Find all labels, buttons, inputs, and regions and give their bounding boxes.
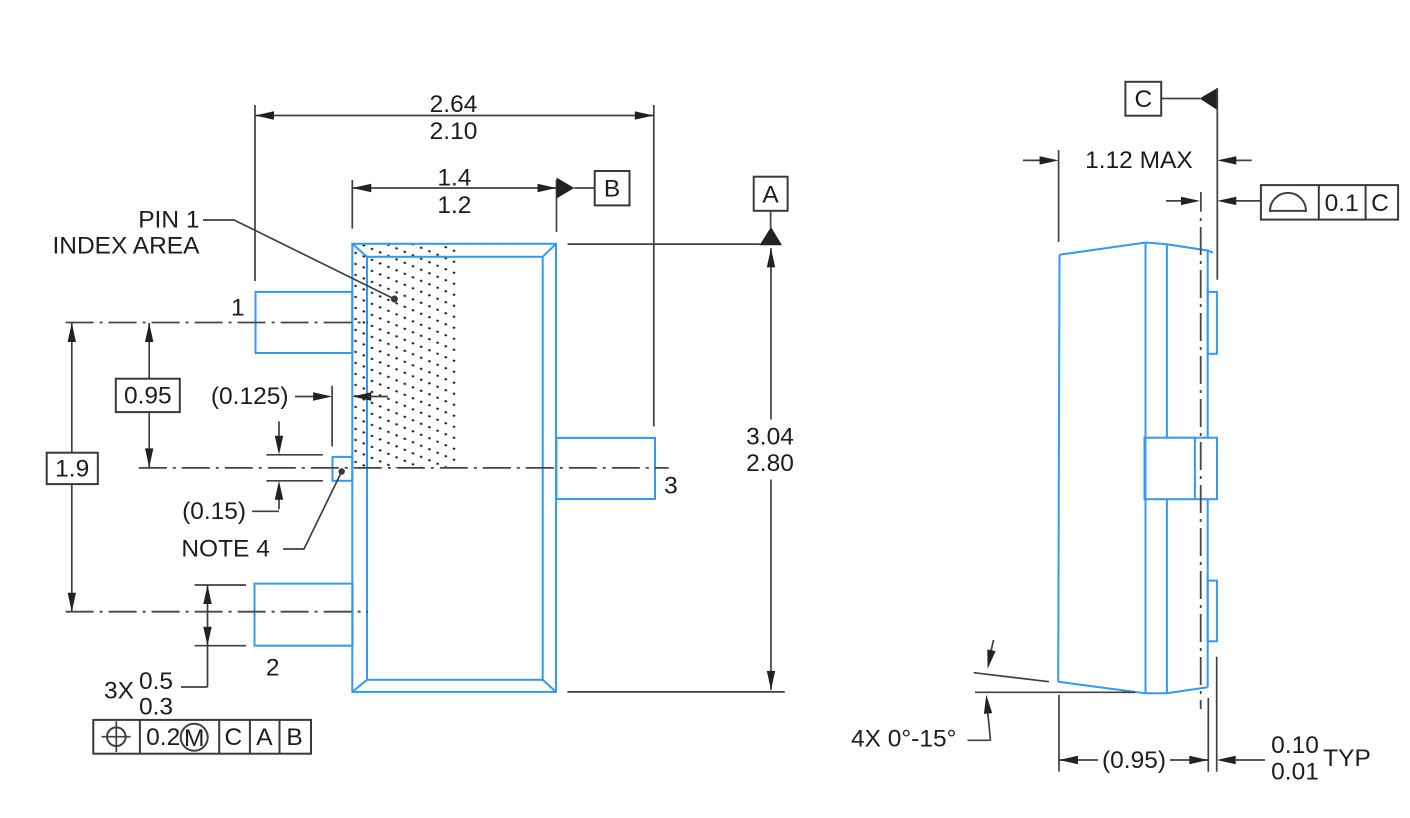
svg-text:0.5: 0.5 bbox=[139, 668, 173, 695]
dimension 0.1 C profile bbox=[1166, 192, 1261, 212]
middle lead bend line bbox=[1194, 438, 1196, 500]
svg-text:1: 1 bbox=[231, 295, 245, 322]
datum C centerline bbox=[1200, 218, 1202, 709]
mold parting line 1 bbox=[1145, 243, 1147, 694]
pin 3 lead bbox=[556, 438, 655, 499]
body inner outline bbox=[367, 257, 543, 680]
angle arrow upper bbox=[987, 640, 995, 669]
middle lead bbox=[1145, 438, 1218, 500]
top lead stub bbox=[1208, 292, 1217, 354]
svg-text:(0.95): (0.95) bbox=[1102, 747, 1166, 774]
dimension 1.4/1.2 bbox=[352, 165, 556, 233]
pin 1 lead bbox=[256, 292, 353, 353]
mold parting line 2 upper bbox=[1166, 244, 1168, 438]
svg-text:C: C bbox=[1371, 190, 1389, 217]
corner bevel bottom-left bbox=[352, 680, 367, 692]
dimension 3.04/2.80 with datum A bbox=[567, 177, 793, 692]
svg-text:1.9: 1.9 bbox=[55, 456, 89, 483]
side body top edge bbox=[1060, 243, 1214, 255]
datum B symbol bbox=[557, 171, 630, 205]
svg-text:TYP: TYP bbox=[1323, 745, 1371, 772]
dimension (0.95) bbox=[1059, 695, 1208, 774]
svg-text:2.10: 2.10 bbox=[430, 118, 478, 145]
seating plane line bbox=[975, 691, 1135, 693]
svg-text:1.12 MAX: 1.12 MAX bbox=[1085, 147, 1193, 174]
centerline pin 2 bbox=[66, 611, 368, 613]
svg-text:3.04: 3.04 bbox=[746, 424, 794, 451]
pin 2 lead bbox=[255, 584, 353, 646]
note 4 label bbox=[181, 468, 345, 562]
dimension 1.12 MAX bbox=[1023, 147, 1252, 242]
svg-text:3: 3 bbox=[664, 473, 678, 500]
dimension 0.10/0.01 TYP bbox=[1217, 657, 1371, 786]
svg-text:(0.125): (0.125) bbox=[211, 383, 289, 410]
svg-text:0.01: 0.01 bbox=[1271, 759, 1319, 786]
svg-text:C: C bbox=[1134, 86, 1152, 113]
centerline middle bbox=[139, 467, 669, 469]
svg-text:0.10: 0.10 bbox=[1271, 732, 1319, 759]
datum C symbol bbox=[1125, 82, 1217, 280]
centerline pin 1 bbox=[66, 322, 368, 324]
svg-text:0.95: 0.95 bbox=[124, 383, 172, 410]
pin 1 index area label bbox=[52, 207, 397, 303]
svg-text:INDEX AREA: INDEX AREA bbox=[52, 233, 200, 260]
corner bevel top-left bbox=[352, 244, 367, 257]
dimension 2.64/2.10 bbox=[255, 91, 654, 426]
side body right edge lower bbox=[1207, 499, 1209, 687]
dimension (0.125) bbox=[211, 383, 388, 447]
svg-text:(0.15): (0.15) bbox=[182, 498, 246, 525]
body outer outline bbox=[352, 244, 556, 692]
angle arrow lower bbox=[968, 695, 993, 741]
svg-text:NOTE 4: NOTE 4 bbox=[181, 536, 270, 563]
feature control frame position 0.2 M C A B bbox=[93, 720, 311, 754]
dimension 1.9 bbox=[47, 323, 98, 612]
dimension (0.15) bbox=[182, 421, 323, 525]
corner bevel top-right bbox=[543, 244, 556, 257]
svg-text:B: B bbox=[604, 176, 620, 203]
pin 1 index area hatch bbox=[352, 244, 457, 468]
svg-text:0.1: 0.1 bbox=[1325, 190, 1359, 217]
svg-text:0.3: 0.3 bbox=[139, 694, 173, 721]
svg-text:B: B bbox=[286, 724, 302, 751]
svg-text:C: C bbox=[225, 724, 243, 751]
note 4 feature bbox=[333, 457, 353, 481]
svg-text:M: M bbox=[184, 725, 204, 752]
svg-text:A: A bbox=[256, 724, 273, 751]
dimension 3X 0.5/0.3 bbox=[104, 585, 246, 721]
svg-text:0.2: 0.2 bbox=[146, 724, 180, 751]
svg-text:2.64: 2.64 bbox=[430, 91, 478, 118]
side body bottom edge bbox=[1058, 682, 1208, 694]
side body left edge bbox=[1058, 255, 1059, 682]
bottom lead stub bbox=[1208, 581, 1217, 642]
svg-text:4X 0°-15°: 4X 0°-15° bbox=[851, 726, 956, 753]
svg-text:A: A bbox=[762, 182, 779, 209]
svg-text:PIN 1: PIN 1 bbox=[138, 207, 199, 234]
svg-text:1.2: 1.2 bbox=[437, 192, 471, 219]
mold parting line 2 lower bbox=[1166, 499, 1168, 693]
lead angle line bbox=[974, 673, 1049, 682]
svg-text:2.80: 2.80 bbox=[746, 450, 794, 477]
svg-text:2: 2 bbox=[266, 655, 280, 682]
dimension 0.95 bbox=[116, 323, 180, 467]
svg-text:1.4: 1.4 bbox=[437, 165, 471, 192]
corner bevel bottom-right bbox=[543, 680, 556, 692]
svg-text:3X: 3X bbox=[104, 678, 134, 705]
side body right edge upper bbox=[1207, 251, 1209, 438]
feature control frame profile 0.1 C bbox=[1261, 185, 1398, 220]
